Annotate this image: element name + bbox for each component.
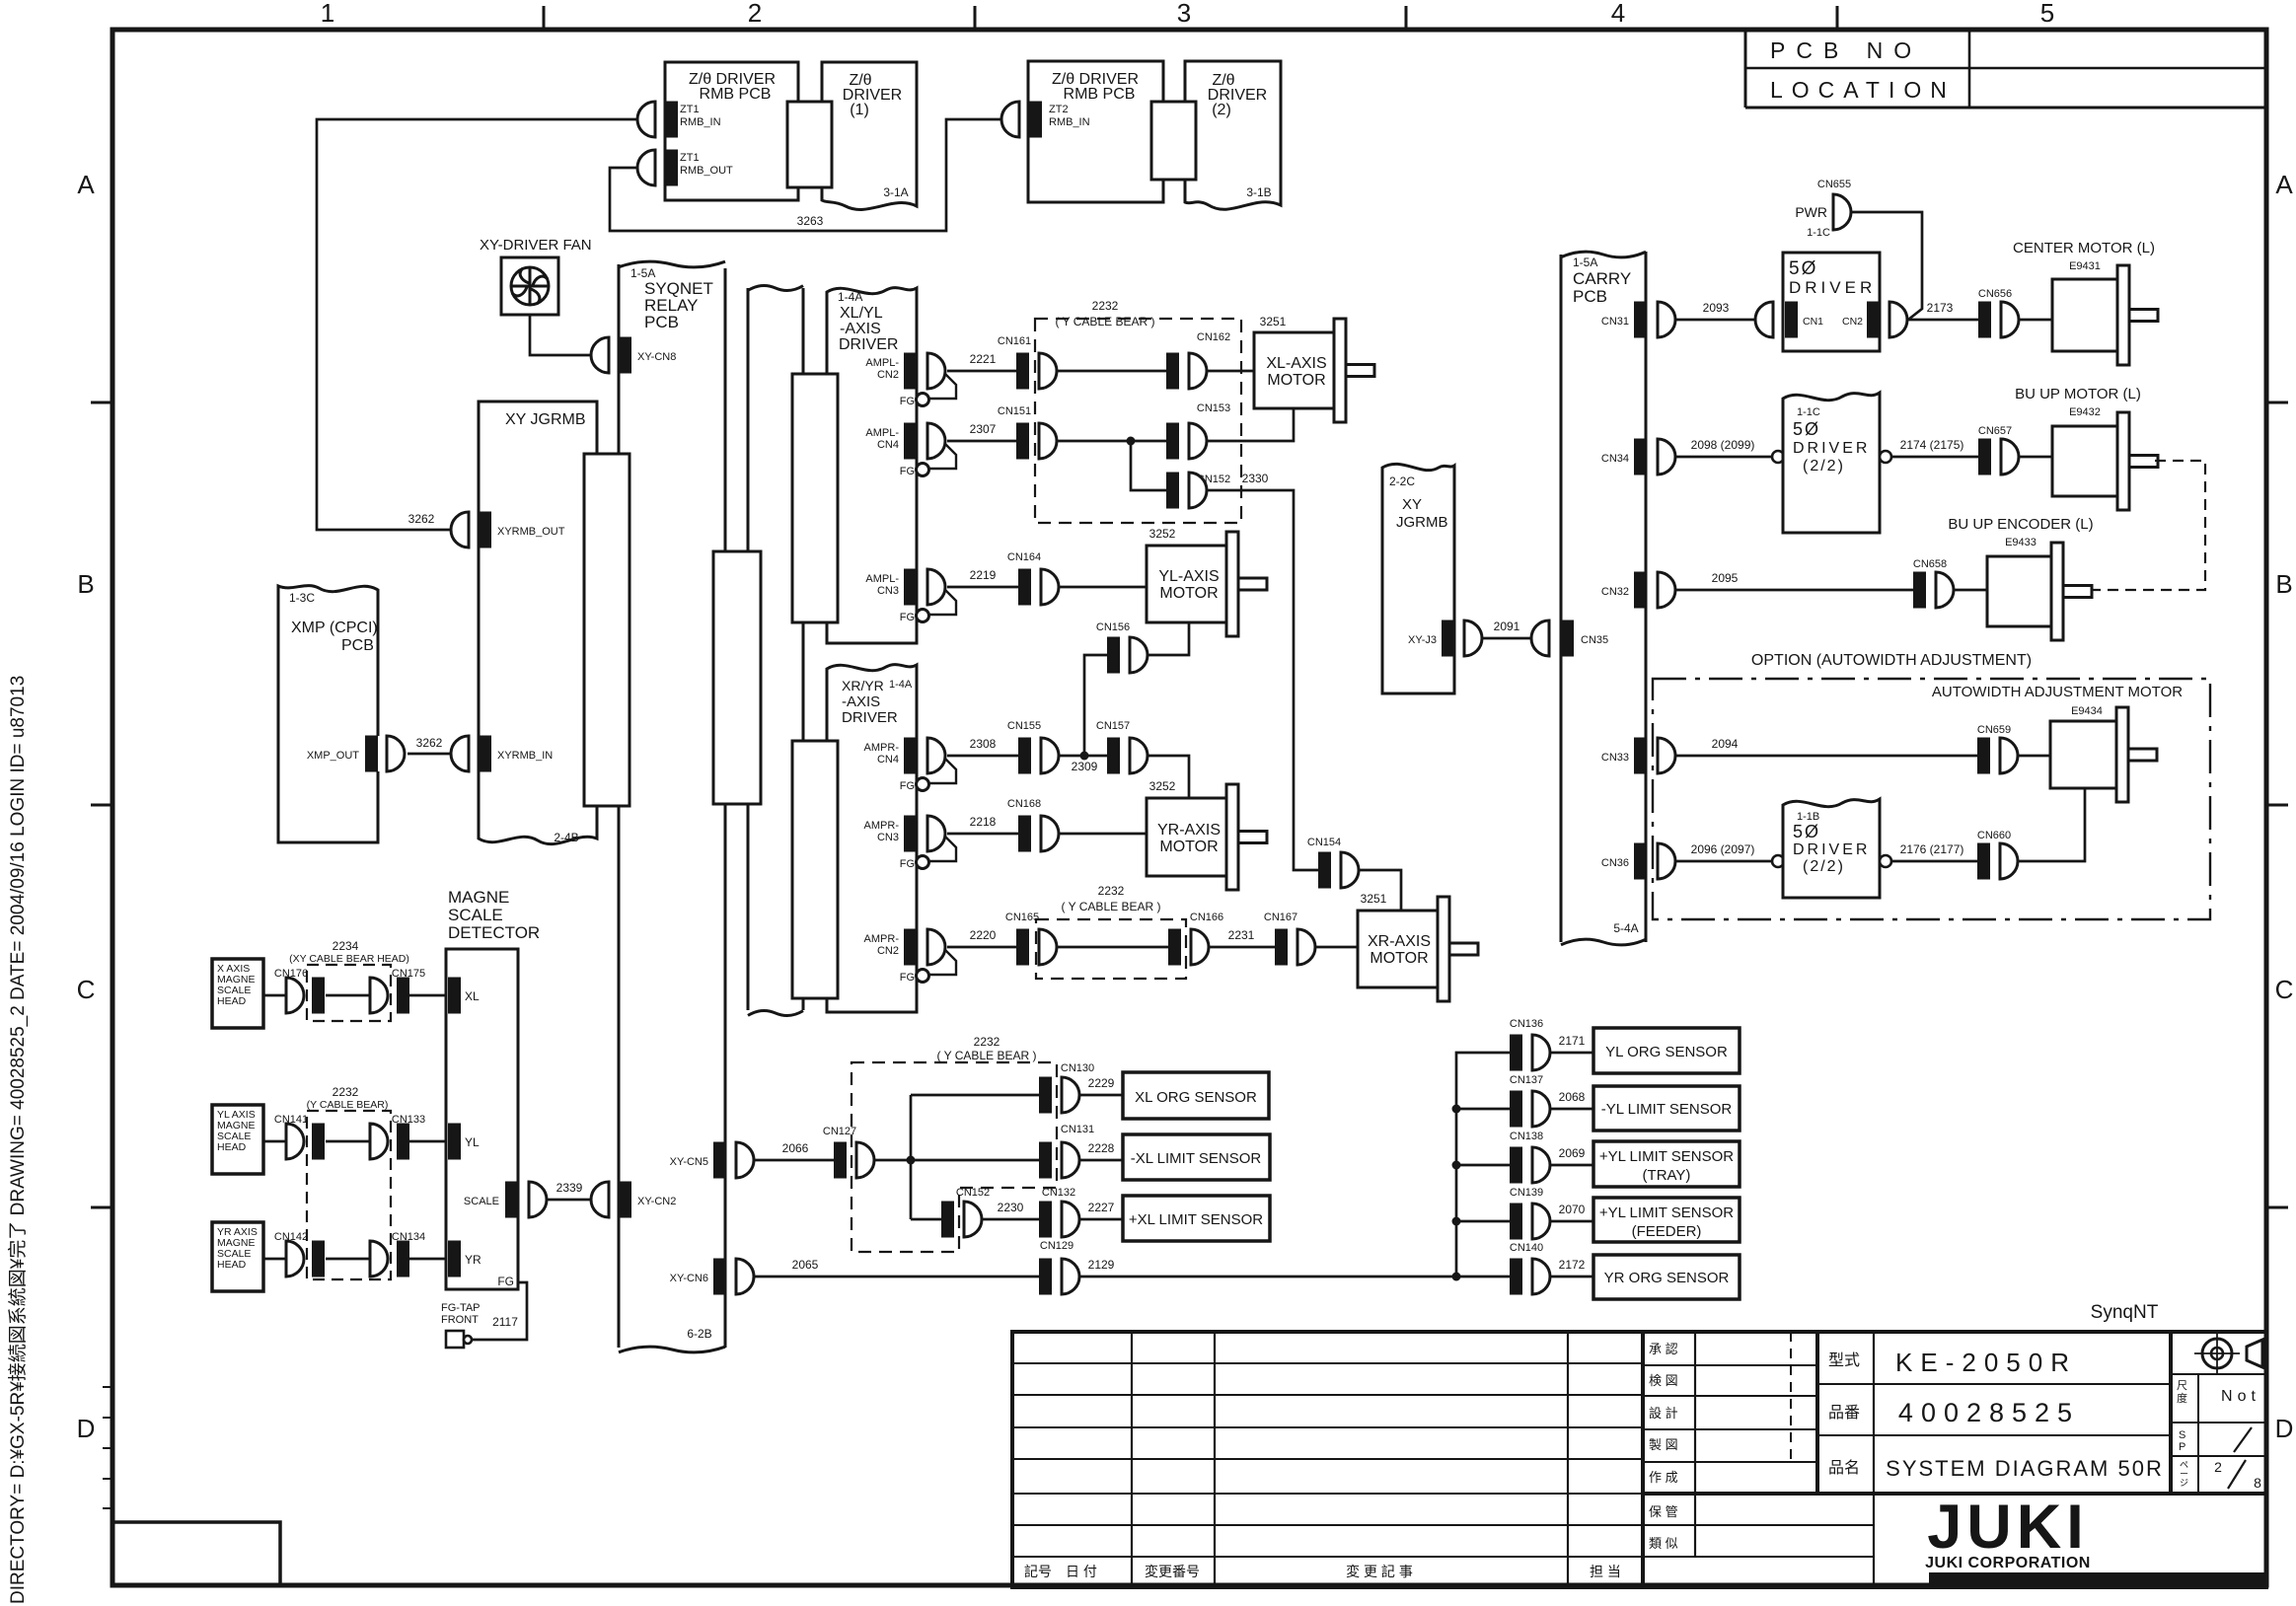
wire 2070: [1550, 1220, 1593, 1223]
svg-text:SynqNT: SynqNT: [2091, 1302, 2159, 1323]
wire CN164 to YL motor: [1059, 586, 1147, 589]
Y CABLE BEAR dashed box upper: [1035, 319, 1241, 523]
CARRY PCB lane: [1560, 255, 1563, 942]
svg-text:CN155: CN155: [1007, 720, 1041, 732]
svg-text:HEAD: HEAD: [217, 995, 247, 1007]
svg-text:2: 2: [748, 0, 762, 28]
wire CN133 to YL: [409, 1140, 448, 1143]
5phi DRIVER 2/2 box lower: [1772, 855, 1784, 867]
svg-text:2-4B: 2-4B: [554, 831, 578, 844]
wire 2221: [947, 370, 1016, 373]
Z/theta DRIVER (2) box: [1185, 61, 1281, 209]
wire CN657 to BU UP motor: [2019, 456, 2052, 459]
svg-text:CN162: CN162: [1197, 331, 1230, 343]
wire to CN131: [911, 1159, 1039, 1162]
connector ZT1 RMB_IN: [665, 102, 678, 138]
wire CN155 to CN157: [1059, 755, 1107, 758]
wire CN157 to YR motor top: [1148, 756, 1189, 798]
wire CN175 to XL: [409, 994, 448, 997]
svg-text:XL: XL: [465, 989, 480, 1003]
svg-text:CENTER MOTOR (L): CENTER MOTOR (L): [2013, 240, 2155, 256]
connector CN34: [1634, 439, 1647, 475]
+XL LIMIT SENSOR box: [1123, 1196, 1270, 1241]
svg-text:保 管: 保 管: [1649, 1504, 1678, 1519]
Y CABLE BEAR dashed box sensors: [852, 1062, 1057, 1252]
svg-text:JUKI CORPORATION: JUKI CORPORATION: [1925, 1555, 2091, 1571]
svg-text:BU UP MOTOR (L): BU UP MOTOR (L): [2015, 386, 2141, 402]
svg-text:XY-DRIVER FAN: XY-DRIVER FAN: [480, 237, 592, 254]
svg-text:XR/YR: XR/YR: [842, 678, 884, 693]
svg-text:2094: 2094: [1712, 737, 1739, 751]
wire 2308: [947, 755, 1018, 758]
svg-text:CN153: CN153: [1197, 402, 1230, 414]
svg-text:2229: 2229: [1088, 1076, 1115, 1090]
connector CN2 out: [1889, 302, 1907, 337]
svg-text:DETECTOR: DETECTOR: [448, 923, 540, 942]
svg-text:3262: 3262: [416, 736, 443, 750]
wire 2068: [1550, 1108, 1593, 1111]
board link bar 3: [792, 374, 838, 622]
board link bar 4: [792, 741, 838, 998]
svg-text:-AXIS: -AXIS: [840, 321, 881, 337]
svg-text:CN167: CN167: [1264, 912, 1297, 923]
wire head-X to CN176: [263, 994, 286, 997]
wire to CN152 sensor: [911, 1218, 941, 1221]
connector XY-CN2: [619, 1182, 631, 1218]
svg-text:AMPR-: AMPR-: [864, 742, 900, 754]
svg-text:2176 (2177): 2176 (2177): [1900, 842, 1964, 856]
wire 2173: [1907, 319, 1978, 322]
wire AW motor to CN660: [2018, 788, 2085, 861]
+YL LIMIT SENSOR FEEDER box: [1593, 1198, 1740, 1242]
svg-text:(2/2): (2/2): [1803, 458, 1845, 474]
svg-text:CN168: CN168: [1007, 798, 1041, 810]
svg-text:CN34: CN34: [1601, 453, 1629, 465]
svg-text:MOTOR: MOTOR: [1370, 950, 1428, 967]
svg-text:2231: 2231: [1228, 928, 1255, 942]
svg-text:XY-CN8: XY-CN8: [637, 351, 676, 363]
svg-text:-AXIS: -AXIS: [842, 693, 880, 710]
svg-text:ZT1: ZT1: [680, 152, 700, 164]
svg-text:2-2C: 2-2C: [1389, 474, 1415, 488]
svg-text:S: S: [2179, 1429, 2185, 1441]
wire 2230: [982, 1218, 1039, 1221]
svg-text:3-1A: 3-1A: [883, 185, 908, 199]
wire CN151 to CN153 with branch: [1057, 440, 1166, 443]
svg-text:C: C: [2275, 975, 2294, 1004]
svg-text:2308: 2308: [970, 737, 997, 751]
svg-text:OPTION (AUTOWIDTH ADJUSTMENT): OPTION (AUTOWIDTH ADJUSTMENT): [1751, 652, 2032, 669]
svg-text:3263: 3263: [797, 214, 824, 228]
XR-AXIS MOTOR: [1358, 911, 1440, 987]
svg-text:CN660: CN660: [1977, 830, 2011, 841]
wire CN168 to YR motor: [1059, 833, 1147, 836]
svg-text:FG: FG: [900, 466, 915, 477]
svg-text:FG: FG: [900, 858, 915, 870]
wire 2220: [947, 946, 1016, 949]
svg-text:1: 1: [321, 0, 334, 28]
wire head-YL to CN141: [263, 1140, 286, 1143]
svg-text:Not: Not: [2221, 1388, 2260, 1405]
wire 2339: [547, 1199, 591, 1202]
YL ORG SENSOR box: [1593, 1028, 1740, 1073]
OPTION dash-dot box: [1653, 679, 2210, 919]
connector XY-J3: [1442, 620, 1454, 657]
connector CN36: [1634, 843, 1647, 880]
wire 2129: [1079, 1276, 1456, 1278]
wire CN176 to CN175: [326, 994, 370, 997]
svg-text:E9431: E9431: [2069, 260, 2101, 272]
svg-text:3251: 3251: [1361, 892, 1387, 906]
model table: [1815, 1332, 1819, 1494]
scale block: [2169, 1332, 2173, 1494]
svg-text:40028525: 40028525: [1898, 1398, 2080, 1427]
svg-text:+YL LIMIT SENSOR: +YL LIMIT SENSOR: [1599, 1204, 1734, 1221]
bus lane: [747, 288, 750, 551]
svg-text:CN2: CN2: [1842, 316, 1863, 328]
svg-text:2230: 2230: [998, 1201, 1024, 1214]
svg-text:RMB PCB: RMB PCB: [700, 86, 772, 103]
svg-text:CN32: CN32: [1601, 586, 1629, 598]
svg-text:2307: 2307: [970, 422, 997, 436]
svg-text:KE-2050R: KE-2050R: [1895, 1348, 2077, 1377]
svg-text:CN165: CN165: [1005, 912, 1039, 923]
svg-text:変更番号: 変更番号: [1145, 1564, 1200, 1579]
svg-text:CN658: CN658: [1913, 558, 1947, 570]
svg-text:ジ: ジ: [2180, 1478, 2188, 1488]
wire 2307: [947, 440, 1016, 443]
sheet corner box bottom-left: [112, 1522, 280, 1585]
svg-text:SCALE: SCALE: [464, 1196, 499, 1207]
svg-text:2070: 2070: [1559, 1203, 1586, 1216]
svg-text:CN4: CN4: [877, 439, 899, 451]
svg-text:XY: XY: [1402, 496, 1422, 513]
wire 2066: [754, 1159, 834, 1162]
connector AMPL-CN2: [904, 353, 917, 390]
wire 2227: [1079, 1218, 1123, 1221]
wire 2330 CN152 down to CN154: [1207, 490, 1318, 870]
wire CN161 to CN162: [1057, 370, 1166, 373]
svg-text:XL ORG SENSOR: XL ORG SENSOR: [1135, 1089, 1257, 1106]
wire into CN140: [1456, 1276, 1510, 1278]
svg-text:5Ø: 5Ø: [1793, 419, 1820, 439]
BU UP MOTOR: [2052, 426, 2119, 496]
svg-text:BU UP ENCODER (L): BU UP ENCODER (L): [1948, 516, 2093, 533]
svg-text:3252: 3252: [1149, 527, 1176, 541]
row tick marks left: [91, 401, 112, 404]
svg-text:1-3C: 1-3C: [289, 591, 315, 605]
svg-text:CN655: CN655: [1817, 179, 1851, 190]
svg-text:CN131: CN131: [1061, 1124, 1094, 1135]
svg-text:HEAD: HEAD: [217, 1259, 247, 1271]
svg-text:( Y CABLE BEAR ): ( Y CABLE BEAR ): [1062, 900, 1161, 913]
svg-text:作 成: 作 成: [1649, 1470, 1678, 1485]
wire CN142 to CN134: [326, 1258, 370, 1261]
wire fan to XY-CN8: [530, 315, 591, 355]
svg-text:CN136: CN136: [1510, 1018, 1543, 1030]
svg-text:XR-AXIS: XR-AXIS: [1368, 933, 1431, 950]
svg-text:CN129: CN129: [1040, 1240, 1074, 1252]
svg-text:FG: FG: [900, 972, 915, 984]
left border ruler ticks: [103, 1386, 112, 1388]
svg-text:( Y CABLE BEAR ): ( Y CABLE BEAR ): [1056, 315, 1155, 328]
YR ORG SENSOR box: [1593, 1255, 1740, 1299]
connector AMPL-CN4: [904, 423, 917, 460]
svg-text:2228: 2228: [1088, 1141, 1115, 1155]
svg-text:B: B: [2275, 569, 2292, 599]
wire 2231: [1209, 946, 1275, 949]
svg-text:(2/2): (2/2): [1803, 858, 1845, 875]
wire 3262 XMP_OUT to XYRMB_IN: [407, 753, 452, 756]
svg-text:XL-AXIS: XL-AXIS: [1266, 355, 1326, 372]
wire 2098 (2099): [1675, 456, 1772, 459]
wire 2219: [947, 586, 1018, 589]
svg-text:RMB_OUT: RMB_OUT: [680, 165, 733, 177]
svg-text:C: C: [77, 975, 96, 1004]
svg-text:+YL LIMIT SENSOR: +YL LIMIT SENSOR: [1599, 1148, 1734, 1165]
XL-AXIS MOTOR: [1254, 332, 1336, 408]
svg-text:2096 (2097): 2096 (2097): [1691, 842, 1755, 856]
YL-AXIS MOTOR: [1147, 546, 1228, 622]
svg-text:2117: 2117: [492, 1315, 518, 1329]
connector XYRMB_OUT: [479, 512, 491, 548]
svg-text:E9432: E9432: [2069, 406, 2101, 418]
JUKI logo bar: [1929, 1572, 2266, 1586]
XY JGRMB 2-2C box: [1382, 464, 1454, 693]
svg-text:CN137: CN137: [1510, 1074, 1543, 1086]
svg-text:CN31: CN31: [1601, 316, 1629, 328]
svg-text:1-1C: 1-1C: [1807, 227, 1830, 239]
BU UP ENCODER: [1987, 556, 2053, 626]
sensor net junction: [874, 1159, 911, 1162]
svg-text:XY-CN2: XY-CN2: [637, 1196, 676, 1207]
svg-text:類 似: 類 似: [1649, 1536, 1678, 1551]
SYQNET RELAY PCB lane: [618, 264, 621, 454]
svg-text:B: B: [77, 569, 94, 599]
svg-text:AUTOWIDTH ADJUSTMENT MOTOR: AUTOWIDTH ADJUSTMENT MOTOR: [1932, 684, 2183, 700]
svg-text:FG: FG: [497, 1275, 514, 1288]
connector CN33: [1634, 738, 1647, 774]
svg-text:PCB: PCB: [644, 313, 679, 331]
5phi DRIVER box 1: [1783, 253, 1880, 351]
svg-text:度: 度: [2177, 1391, 2187, 1405]
wire PWR to 2173 net: [1851, 212, 1922, 320]
XMP CPCI PCB box: [278, 586, 378, 842]
svg-text:CN657: CN657: [1978, 425, 2012, 437]
svg-text:XMP (CPCI): XMP (CPCI): [291, 620, 378, 636]
svg-text:2068: 2068: [1559, 1090, 1586, 1104]
svg-text:CN656: CN656: [1978, 288, 2012, 300]
connector CN31: [1634, 302, 1647, 338]
svg-text:4: 4: [1611, 0, 1625, 28]
svg-text:2091: 2091: [1494, 620, 1520, 633]
PCB NO LOCATION table: [1744, 30, 1747, 108]
svg-text:YR: YR: [465, 1253, 481, 1267]
svg-text:2066: 2066: [782, 1141, 809, 1155]
svg-text:ZT1: ZT1: [680, 104, 700, 115]
5phi DRIVER 2/2 box upper: [1772, 451, 1784, 463]
svg-text:2309: 2309: [1072, 760, 1098, 773]
svg-text:CN139: CN139: [1510, 1187, 1543, 1199]
-XL LIMIT SENSOR box: [1123, 1134, 1270, 1180]
connector SCALE port: [505, 1182, 518, 1218]
svg-text:1-5A: 1-5A: [1573, 255, 1597, 269]
svg-text:( Y CABLE BEAR ): ( Y CABLE BEAR ): [937, 1049, 1037, 1062]
wire FG to FG-TAP: [473, 1282, 527, 1340]
svg-text:3252: 3252: [1149, 779, 1176, 793]
svg-text:3262: 3262: [408, 512, 435, 526]
svg-text:CN164: CN164: [1007, 551, 1041, 563]
svg-text:MAGNE: MAGNE: [448, 888, 509, 907]
svg-text:MOTOR: MOTOR: [1159, 839, 1218, 855]
svg-text:DRIVER: DRIVER: [1793, 440, 1870, 457]
-YL LIMIT SENSOR box: [1593, 1086, 1740, 1131]
svg-text:PCB: PCB: [1573, 287, 1607, 306]
connector CN32: [1634, 572, 1647, 609]
approval table: [1694, 1332, 1696, 1557]
connector ZT2 RMB_IN: [1029, 102, 1042, 138]
row tick marks right: [2266, 401, 2288, 404]
wire 3263 RMB_OUT to ZT2: [610, 119, 1001, 231]
svg-text:DRIVER: DRIVER: [842, 709, 898, 726]
svg-text:CN132: CN132: [1042, 1187, 1075, 1199]
wire 2091: [1482, 637, 1531, 640]
connector CN35: [1531, 620, 1549, 656]
svg-text:RMB_IN: RMB_IN: [1049, 116, 1090, 128]
svg-text:AMPL-: AMPL-: [865, 427, 899, 439]
svg-text:DRIVER: DRIVER: [839, 336, 898, 353]
svg-text:2339: 2339: [556, 1181, 583, 1195]
wire 2095: [1675, 589, 1913, 592]
wire 2229: [1079, 1094, 1123, 1097]
svg-text:SCALE: SCALE: [448, 906, 503, 924]
svg-text:製 図: 製 図: [1649, 1437, 1678, 1452]
svg-text:2221: 2221: [970, 352, 997, 366]
wire YL motor to CN156: [1148, 622, 1189, 655]
AUTOWIDTH ADJUSTMENT MOTOR symbol: [2050, 721, 2118, 788]
wire 2096 (2097): [1675, 860, 1772, 863]
svg-text:XY-J3: XY-J3: [1408, 634, 1437, 646]
svg-text:CN35: CN35: [1581, 634, 1608, 646]
svg-text:P: P: [2179, 1441, 2185, 1453]
Z/theta DRIVER RMB PCB 1 box: [665, 62, 798, 200]
svg-text:LOCATION: LOCATION: [1770, 77, 1956, 103]
svg-text:CN161: CN161: [998, 335, 1031, 347]
svg-text:2: 2: [2214, 1459, 2222, 1475]
wire CN141 to CN133: [326, 1140, 370, 1143]
svg-text:3: 3: [1177, 0, 1191, 28]
svg-text:RMB PCB: RMB PCB: [1064, 86, 1136, 103]
XL ORG SENSOR box: [1123, 1072, 1269, 1119]
YR AXIS MAGNE SCALE HEAD box: [212, 1222, 263, 1291]
connector XY-CN6: [713, 1259, 726, 1295]
svg-text:品番: 品番: [1828, 1404, 1860, 1422]
wire CN156 branch to 2308 net: [1084, 655, 1107, 756]
svg-text:YL-AXIS: YL-AXIS: [1158, 568, 1219, 585]
board link connector Z2: [1151, 102, 1196, 180]
svg-text:CN1: CN1: [1803, 316, 1823, 328]
board link bar 2: [713, 551, 761, 804]
wire 2069: [1550, 1164, 1593, 1167]
connector YR port: [448, 1241, 461, 1277]
wire CN165 to CN166: [1057, 946, 1168, 949]
svg-text:XYRMB_IN: XYRMB_IN: [497, 750, 553, 762]
revision table lines: [1131, 1332, 1133, 1587]
svg-text:検 図: 検 図: [1649, 1373, 1678, 1388]
svg-text:1-1C: 1-1C: [1797, 406, 1820, 418]
svg-text:2129: 2129: [1088, 1258, 1115, 1272]
svg-text:DIRECTORY= D:¥GX-5R¥接続図系統図¥完了: DIRECTORY= D:¥GX-5R¥接続図系統図¥完了 DRAWING= 4…: [7, 676, 29, 1604]
wire CN656 to center motor: [2019, 319, 2052, 322]
svg-text:YR ORG SENSOR: YR ORG SENSOR: [1604, 1270, 1730, 1286]
svg-text:XYRMB_OUT: XYRMB_OUT: [497, 526, 565, 538]
svg-text:CN166: CN166: [1190, 912, 1223, 923]
YL AXIS MAGNE SCALE HEAD box: [212, 1105, 263, 1174]
svg-text:AMPL-: AMPL-: [865, 573, 899, 585]
svg-text:FG-TAP: FG-TAP: [441, 1302, 481, 1314]
svg-text:CN127: CN127: [823, 1126, 856, 1137]
column tick marks top: [543, 6, 546, 30]
wire CN154 to XR motor top: [1359, 870, 1401, 911]
svg-text:FG: FG: [900, 396, 915, 407]
wire 2176 (2177): [1891, 860, 1977, 863]
svg-text:CN36: CN36: [1601, 857, 1629, 869]
wire 2174 (2175): [1891, 456, 1978, 459]
connector XY-CN8: [619, 337, 631, 374]
svg-text:1-4A: 1-4A: [838, 290, 862, 304]
sensor bus vertical: [1452, 1273, 1461, 1281]
svg-text:承 認: 承 認: [1649, 1342, 1678, 1356]
svg-text:6-2B: 6-2B: [687, 1327, 711, 1341]
svg-text:DRIVER: DRIVER: [1793, 841, 1870, 858]
svg-text:CN154: CN154: [1307, 837, 1341, 848]
svg-text:5Ø: 5Ø: [1789, 258, 1817, 279]
svg-text:型式: 型式: [1828, 1351, 1860, 1369]
svg-text:2219: 2219: [970, 568, 997, 582]
svg-text:8: 8: [2254, 1475, 2261, 1491]
XL/YL-AXIS DRIVER box: [827, 288, 917, 643]
svg-text:日 付: 日 付: [1066, 1564, 1097, 1579]
svg-text:CN2: CN2: [877, 369, 899, 381]
CENTER MOTOR: [2052, 279, 2119, 351]
+YL LIMIT SENSOR TRAY box: [1593, 1141, 1740, 1187]
first angle projection symbol: [2202, 1339, 2232, 1368]
wire CN162 to XL motor: [1207, 370, 1254, 373]
svg-text:2174 (2175): 2174 (2175): [1900, 438, 1964, 452]
svg-text:1-4A: 1-4A: [889, 679, 913, 691]
svg-text:2330: 2330: [1242, 472, 1269, 485]
svg-text:5Ø: 5Ø: [1793, 822, 1820, 841]
svg-text:5: 5: [2040, 0, 2054, 28]
svg-text:5-4A: 5-4A: [1613, 921, 1638, 935]
board link bar 1: [584, 454, 630, 806]
svg-text:2234: 2234: [333, 939, 359, 953]
svg-text:E9433: E9433: [2005, 537, 2037, 548]
Y CABLE BEAR dashed box left: [307, 1111, 391, 1279]
wire 2218: [947, 833, 1018, 836]
svg-text:CN33: CN33: [1601, 752, 1629, 764]
svg-text:PWR: PWR: [1795, 204, 1827, 220]
svg-text:CARRY: CARRY: [1573, 269, 1631, 288]
svg-text:(1): (1): [850, 102, 869, 118]
svg-text:CN4: CN4: [877, 754, 899, 766]
svg-text:AMPR-: AMPR-: [864, 933, 900, 945]
svg-text:2173: 2173: [1927, 301, 1954, 315]
svg-text:CN156: CN156: [1096, 621, 1130, 633]
svg-text:FG: FG: [900, 780, 915, 792]
svg-text:YR-AXIS: YR-AXIS: [1157, 822, 1221, 839]
XY JGRMB box: [479, 401, 597, 844]
